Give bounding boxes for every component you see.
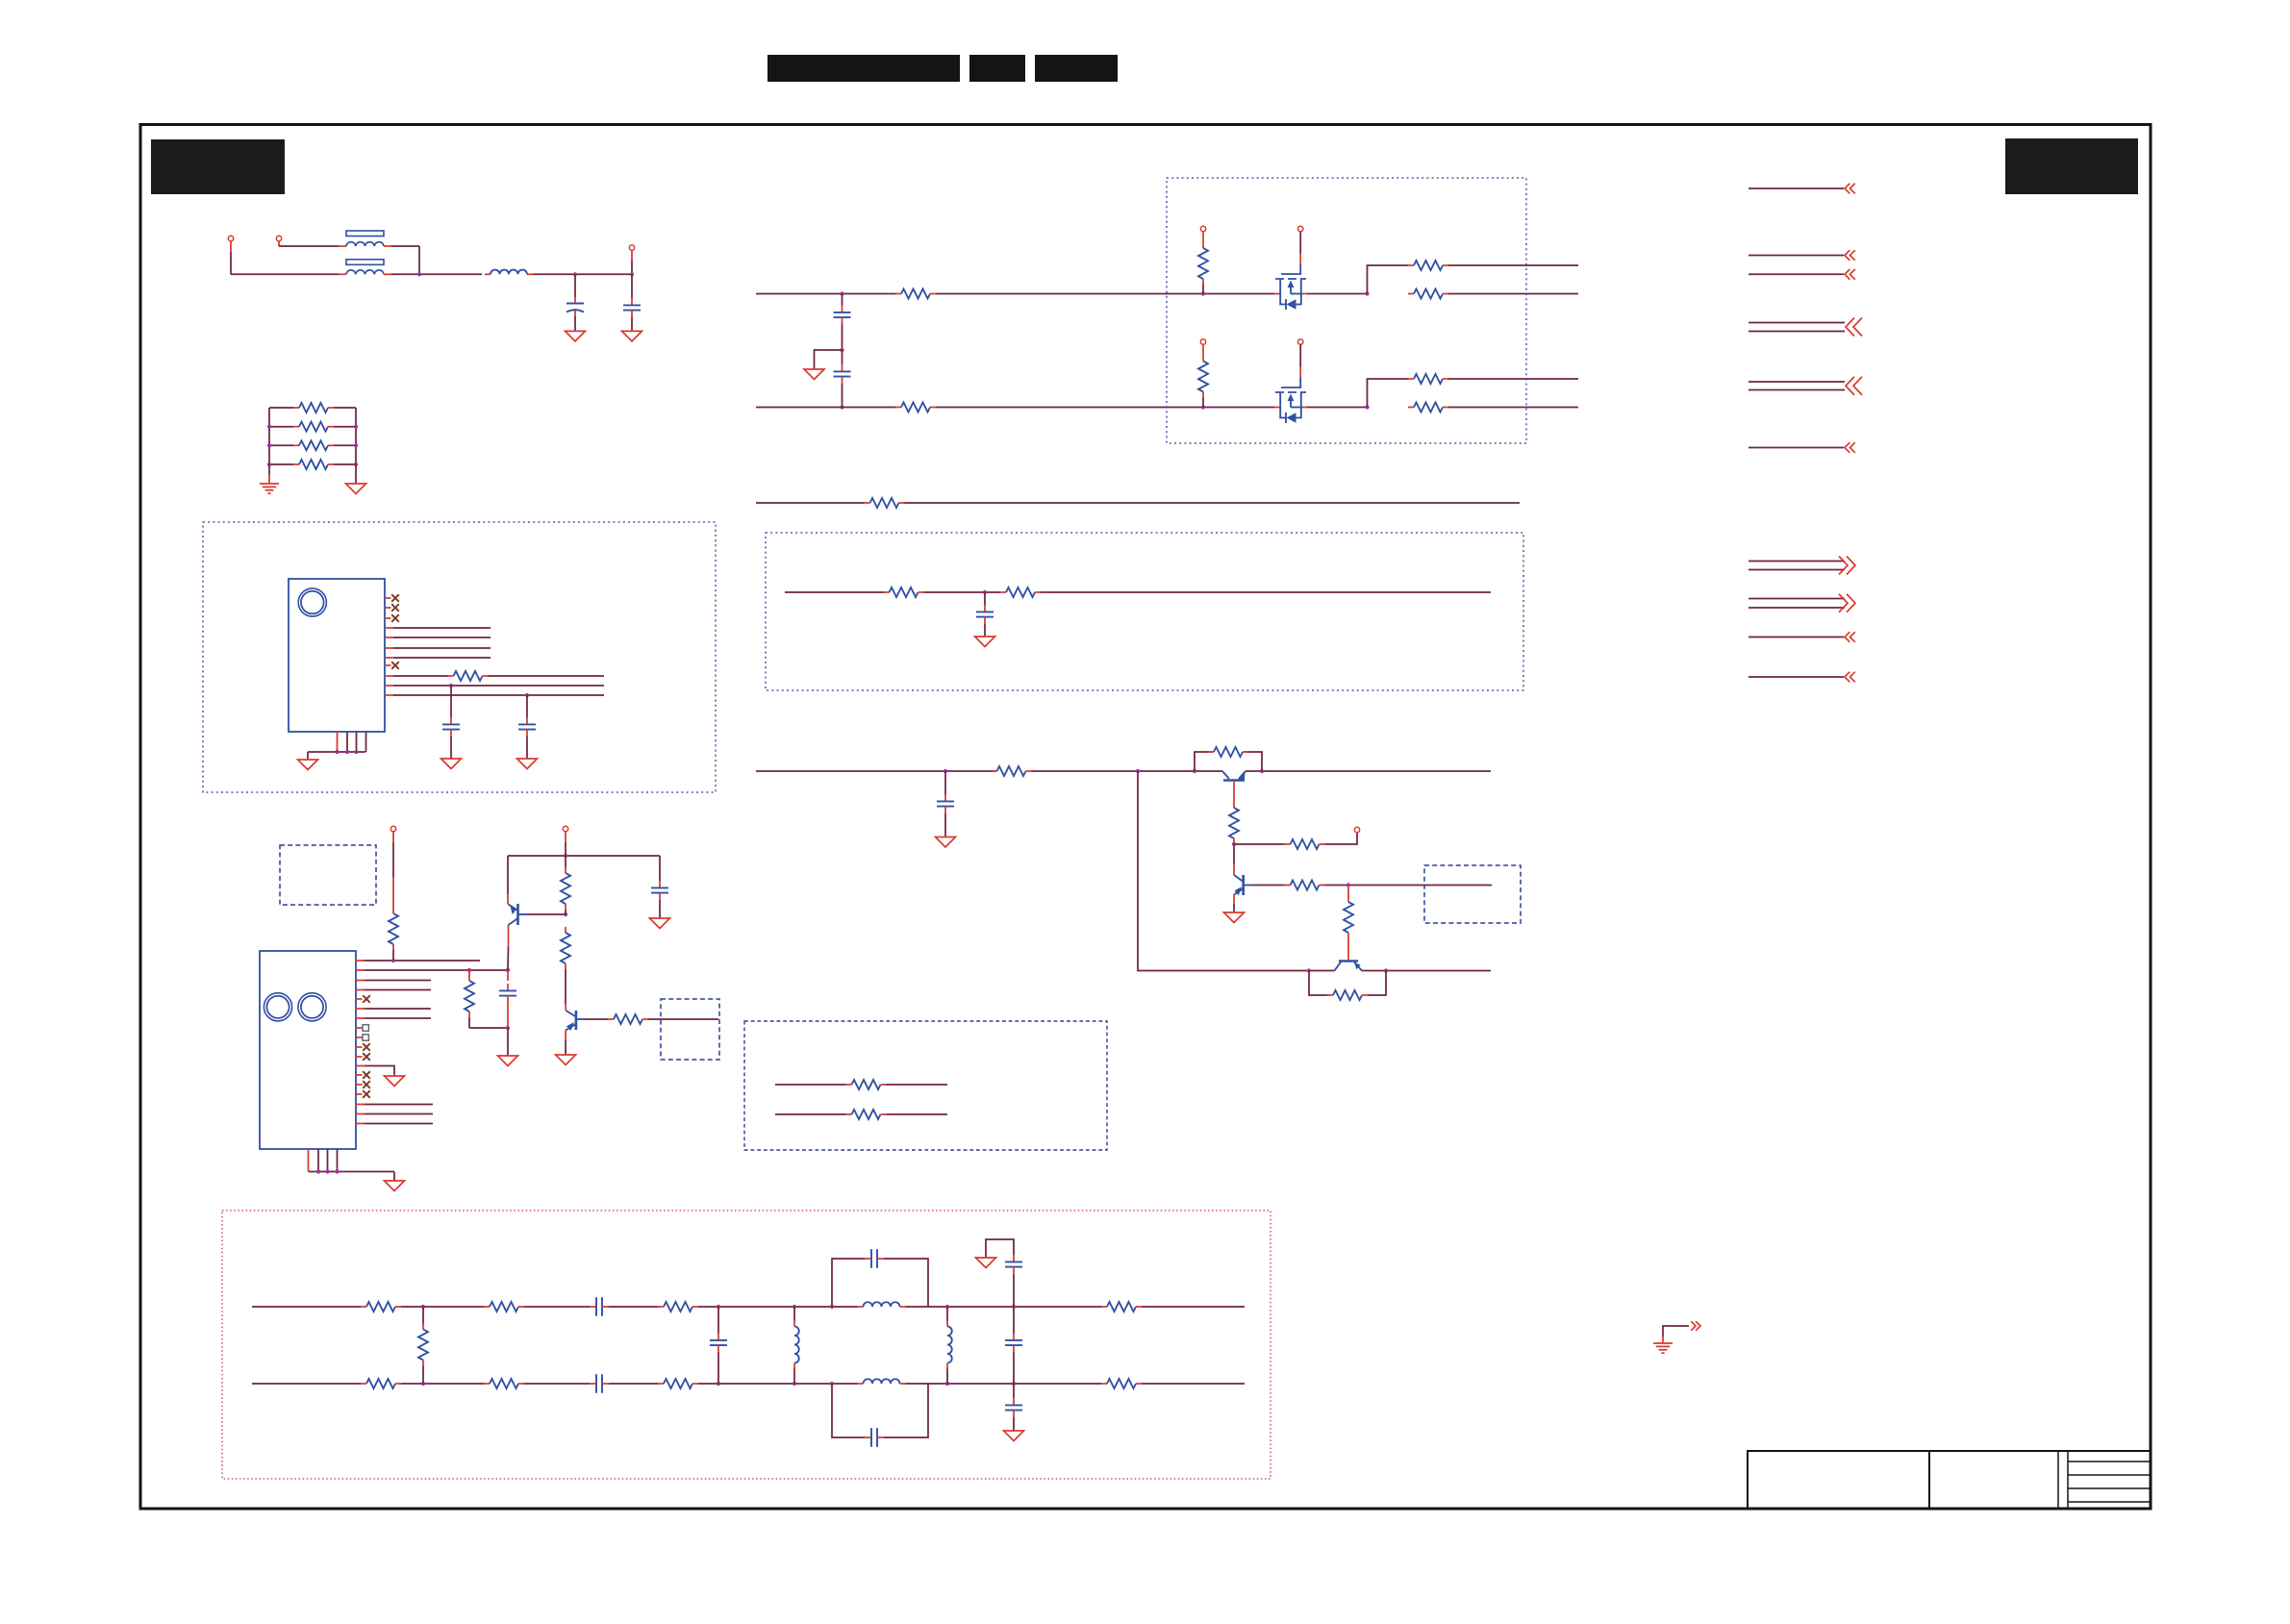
wire	[401, 1306, 484, 1308]
wire	[984, 624, 986, 637]
capacitor C15	[590, 1374, 609, 1393]
junction	[417, 272, 421, 276]
wire	[946, 1307, 948, 1321]
wire	[698, 1306, 858, 1308]
input port arrow (pair)	[1846, 377, 1862, 395]
transistor Q3	[1222, 771, 1246, 781]
dotted enclosure (LC filter block)	[222, 1211, 1271, 1479]
wire	[986, 1239, 1014, 1258]
junction	[316, 1169, 320, 1173]
terminal	[629, 245, 634, 250]
wire (ground bus)	[309, 1171, 395, 1173]
dashed enclosure (connector stub 2)	[661, 999, 719, 1060]
wire	[884, 1259, 928, 1307]
junction	[391, 959, 395, 962]
wire (net to port)	[1749, 598, 1845, 600]
wire	[659, 856, 661, 881]
wire	[385, 694, 393, 696]
wire	[1307, 293, 1368, 295]
wire	[1325, 833, 1358, 844]
input port arrow (pair)	[1846, 318, 1862, 337]
wire	[1663, 1326, 1689, 1337]
junction	[506, 1026, 510, 1030]
wire	[422, 1307, 424, 1324]
pin stub	[385, 597, 391, 599]
pin stub	[356, 1046, 363, 1048]
wire	[842, 294, 843, 306]
wire	[1202, 398, 1204, 408]
wire	[334, 444, 356, 446]
wire	[1013, 1274, 1015, 1307]
wire	[1202, 232, 1204, 242]
wire (net to port)	[1749, 331, 1845, 333]
wire (U2)	[356, 969, 365, 971]
junction	[793, 1382, 796, 1386]
terminal	[1200, 226, 1205, 231]
junction	[717, 1382, 720, 1386]
wire	[1032, 770, 1223, 772]
wire	[905, 502, 1521, 504]
pin stub	[317, 1149, 319, 1172]
wire	[279, 245, 339, 247]
wire	[422, 1366, 424, 1385]
wire	[574, 274, 576, 297]
ground	[298, 760, 318, 770]
resistor R3	[293, 440, 334, 450]
junction	[793, 1305, 796, 1309]
wire	[659, 900, 661, 918]
wire	[1013, 1307, 1015, 1334]
junction	[840, 348, 843, 352]
wire (U2)	[356, 1123, 365, 1125]
title block divider 1	[1928, 1451, 1930, 1509]
no-connect pin	[363, 1071, 370, 1079]
capacitor C6	[834, 364, 851, 384]
inductor L9	[947, 1321, 952, 1369]
wire	[936, 407, 1274, 409]
wire	[842, 384, 843, 408]
input port arrow	[1845, 442, 1855, 453]
terminal	[1298, 339, 1303, 344]
junction	[325, 1169, 329, 1173]
wire	[1013, 1384, 1015, 1398]
resistor R4	[293, 460, 334, 469]
pin stub	[337, 732, 339, 752]
junction	[421, 1382, 425, 1386]
junction	[1384, 968, 1388, 972]
wire	[944, 813, 946, 837]
capacitor C10	[651, 881, 668, 900]
resistor R24	[389, 908, 398, 950]
wire	[384, 273, 391, 275]
ground	[556, 1055, 576, 1065]
resistor R9	[1408, 289, 1448, 299]
no-connect pin	[363, 1053, 370, 1061]
wire	[533, 273, 632, 275]
output port arrow	[1691, 1321, 1700, 1331]
junction	[1365, 291, 1369, 295]
junction	[945, 1305, 949, 1309]
resistor R30	[846, 1110, 887, 1119]
resistor R36	[484, 1379, 524, 1388]
no-connect pin	[391, 604, 399, 612]
wire	[356, 1065, 365, 1067]
wire	[946, 1369, 948, 1385]
wire	[609, 1383, 658, 1385]
wire	[1234, 843, 1285, 845]
wire	[785, 591, 884, 593]
wire	[1142, 1306, 1245, 1308]
transformer T1 core	[346, 231, 384, 237]
wire	[775, 1113, 846, 1115]
input port arrow	[1845, 672, 1855, 683]
junction	[944, 769, 947, 773]
wire	[269, 444, 293, 446]
resistor R7	[1198, 242, 1208, 285]
junction	[354, 750, 358, 754]
output port arrow (pair)	[1839, 557, 1855, 575]
wire	[1325, 885, 1493, 887]
pin stub	[308, 1149, 310, 1172]
input port arrow	[1845, 250, 1855, 261]
resistor R26	[561, 867, 570, 910]
wire (power rail)	[756, 770, 996, 772]
dashed enclosure (filter section)	[766, 533, 1523, 690]
no-connect pin	[391, 614, 399, 622]
ground	[804, 369, 824, 380]
junction	[1136, 769, 1140, 773]
capacitor C23	[1005, 1398, 1022, 1417]
wire (Q4 base)	[1252, 885, 1285, 887]
wire	[1307, 407, 1368, 409]
junction	[1307, 968, 1311, 972]
junction	[830, 1305, 834, 1309]
redacted block top-left	[151, 139, 285, 194]
wire	[401, 1383, 484, 1385]
resistor R19	[1229, 802, 1239, 844]
junction	[345, 750, 349, 754]
wire	[450, 686, 452, 717]
ground	[385, 1076, 405, 1087]
no-connect pin	[363, 1081, 370, 1088]
wire	[565, 1031, 566, 1040]
wire	[489, 675, 605, 677]
resistor R17	[992, 766, 1032, 776]
wire	[1662, 1337, 1664, 1342]
wire	[1246, 770, 1491, 772]
ground	[498, 1056, 518, 1066]
pin stub	[327, 1149, 329, 1172]
title block row line 2	[2068, 1474, 2151, 1476]
no-connect pin	[363, 1043, 370, 1051]
wire	[526, 737, 528, 759]
junction	[1201, 405, 1205, 409]
wire	[565, 969, 566, 1004]
wire	[936, 293, 1274, 295]
wire	[1347, 938, 1349, 962]
wire	[468, 970, 470, 977]
wire	[268, 408, 270, 464]
resistor R5	[448, 671, 489, 681]
wire	[717, 1307, 719, 1334]
wire (U2)	[356, 989, 365, 991]
wire	[355, 464, 357, 484]
wire	[565, 832, 566, 842]
resistor R27	[561, 927, 570, 969]
wire	[631, 317, 633, 331]
MOSFET Q2	[1274, 345, 1307, 424]
junction	[267, 462, 271, 466]
ground	[976, 1258, 996, 1268]
wire	[1233, 844, 1235, 864]
dashed enclosure (connector stub)	[1424, 865, 1521, 923]
wire	[631, 250, 633, 261]
junction	[1012, 1305, 1016, 1309]
ground	[441, 759, 462, 769]
resistor R6	[895, 289, 936, 299]
wire (bridge)	[1368, 971, 1386, 996]
capacitor C21	[1005, 1255, 1022, 1274]
wire (U1 output)	[385, 627, 393, 629]
resistor R1	[293, 403, 334, 412]
capacitor C7	[976, 605, 994, 624]
wire	[1142, 1383, 1245, 1385]
wire	[924, 591, 1001, 593]
wire	[906, 1306, 1102, 1308]
pin stub	[365, 732, 367, 752]
title block divider 2	[2057, 1451, 2059, 1509]
wire	[609, 1306, 658, 1308]
wire	[334, 407, 356, 409]
resistor R35	[361, 1379, 401, 1388]
capacitor C20	[865, 1249, 884, 1268]
wire (supply rail)	[756, 502, 865, 504]
junction	[1346, 883, 1350, 887]
dashed enclosure (tuner section 1)	[203, 522, 716, 792]
wire (ground bus)	[308, 751, 365, 753]
wire	[887, 1113, 948, 1115]
wire	[1448, 293, 1578, 295]
wire	[1013, 1417, 1015, 1431]
ground	[622, 331, 642, 341]
wire (Q7 base)	[585, 1018, 608, 1020]
junction	[983, 590, 987, 594]
wire	[384, 245, 391, 247]
junction	[1260, 769, 1264, 773]
terminal	[1354, 827, 1359, 832]
redacted title bar 3	[1035, 55, 1118, 82]
wire	[230, 241, 232, 252]
title block row line 4	[2068, 1501, 2151, 1503]
capacitor C9	[499, 984, 516, 1003]
junction	[717, 1305, 720, 1309]
wire	[631, 274, 633, 298]
resistor R14	[865, 498, 905, 508]
pin stub	[385, 607, 391, 609]
junction	[1012, 1382, 1016, 1386]
input port arrow	[1845, 632, 1855, 642]
pin stub	[356, 998, 363, 1000]
terminal	[390, 826, 395, 831]
wire	[468, 1017, 470, 1028]
redacted title bar 1	[768, 55, 960, 82]
wire	[507, 1003, 509, 1028]
wire (U2)	[356, 1104, 365, 1106]
pin stub	[346, 732, 348, 752]
wire	[418, 246, 420, 274]
pin stub	[356, 1093, 363, 1095]
ground	[517, 759, 538, 769]
pin stub	[385, 617, 391, 619]
transistor Q7	[566, 1011, 585, 1031]
wire	[469, 1027, 508, 1029]
title block divider 3	[2067, 1451, 2069, 1509]
wire (net to port)	[1749, 255, 1844, 257]
capacitor C4	[518, 717, 536, 737]
wire (net to port)	[1749, 569, 1845, 571]
junction	[564, 854, 567, 858]
pin stub	[385, 664, 391, 666]
wire	[698, 1383, 858, 1385]
resistor R25	[465, 975, 474, 1017]
wire (U2)	[356, 980, 365, 982]
pin stub	[356, 1084, 363, 1086]
wire	[717, 1353, 719, 1385]
terminal	[563, 826, 567, 831]
ground	[936, 837, 956, 848]
ground	[385, 1181, 405, 1191]
resistor R37	[658, 1379, 698, 1388]
junction	[267, 425, 271, 429]
wire	[832, 1259, 865, 1307]
junction	[630, 272, 634, 276]
ground	[650, 918, 670, 929]
wire	[793, 1369, 795, 1385]
resistor R15	[884, 587, 924, 597]
wire	[1368, 379, 1409, 408]
junction	[506, 968, 510, 972]
transformer T1 winding A	[346, 242, 384, 246]
junction	[564, 912, 567, 916]
resistor R18	[1208, 747, 1248, 757]
wire (bridge)	[1244, 752, 1262, 771]
inductor L1	[485, 270, 533, 275]
resistor R32	[484, 1302, 524, 1312]
title block row line 3	[2068, 1487, 2151, 1489]
pin stub	[356, 1037, 363, 1038]
wire	[385, 685, 393, 687]
wire (channel B)	[756, 407, 895, 409]
resistor R31	[361, 1302, 401, 1312]
wire	[1347, 886, 1349, 898]
wire	[944, 771, 946, 794]
capacitor C2	[623, 298, 641, 317]
wire (net to port)	[1749, 187, 1844, 189]
MOSFET Q1	[1274, 232, 1307, 310]
wire	[524, 1383, 590, 1385]
wire	[355, 408, 357, 464]
wire	[278, 241, 280, 246]
tuner U2 shield symbol	[264, 993, 291, 1021]
wire	[1041, 591, 1491, 593]
terminal	[1200, 339, 1205, 344]
resistor R16	[1000, 587, 1041, 597]
inductor L2	[858, 1302, 906, 1307]
capacitor C8	[937, 794, 954, 813]
dashed enclosure (MOSFET switch block)	[1167, 178, 1526, 443]
wire	[648, 1018, 718, 1020]
pin stub	[337, 1149, 339, 1172]
pin stub	[356, 1027, 363, 1029]
wire	[507, 970, 509, 981]
resistor R28	[608, 1014, 648, 1024]
pin stub	[356, 1074, 363, 1076]
input port arrow	[1845, 184, 1855, 194]
junction	[525, 693, 529, 697]
resistor R39	[418, 1324, 428, 1366]
pin stub	[356, 1056, 363, 1058]
inductor L5	[858, 1379, 906, 1384]
wire	[574, 316, 576, 332]
wire	[1013, 1353, 1015, 1385]
capacitor C24	[865, 1428, 884, 1447]
wire	[1448, 264, 1578, 266]
wire	[1362, 970, 1491, 972]
capacitor C5	[834, 306, 851, 325]
transistor Q5	[1335, 962, 1363, 971]
capacitor C19	[710, 1334, 727, 1353]
resistor R8	[1408, 261, 1448, 270]
junction	[830, 1382, 834, 1386]
wire	[887, 1084, 948, 1086]
wire (net to port)	[1749, 381, 1845, 383]
wire	[450, 737, 452, 759]
no-connect pin	[363, 995, 370, 1003]
wire	[842, 350, 843, 364]
transformer T1 winding B	[346, 270, 384, 274]
resistor R2	[293, 422, 334, 432]
wire	[269, 426, 293, 428]
resistor R23	[1327, 990, 1368, 1000]
wire (U2)	[356, 1017, 365, 1019]
wire (net to port)	[1749, 676, 1844, 678]
wire	[565, 856, 566, 867]
earth ground	[260, 484, 279, 493]
junction	[354, 425, 358, 429]
wire (U2)	[356, 960, 365, 962]
wire	[1368, 265, 1409, 294]
junction	[267, 443, 271, 447]
wire	[775, 1084, 846, 1086]
tuner U2 shield symbol 2	[298, 993, 326, 1021]
ground	[975, 637, 995, 647]
title block	[1748, 1451, 2151, 1509]
junction	[421, 1305, 425, 1309]
wire	[565, 910, 566, 914]
wire	[393, 1172, 395, 1182]
tuner U1 shield symbol	[298, 588, 326, 616]
wire	[392, 950, 394, 961]
wire	[307, 752, 309, 760]
resistor R34	[1101, 1302, 1142, 1312]
transformer T1 core 2	[346, 260, 384, 265]
redacted title bar 2	[969, 55, 1025, 82]
output port arrow (pair)	[1839, 594, 1855, 612]
wire	[334, 463, 356, 465]
dashed enclosure (matching network)	[744, 1021, 1107, 1150]
junction	[840, 291, 843, 295]
junction	[335, 750, 339, 754]
